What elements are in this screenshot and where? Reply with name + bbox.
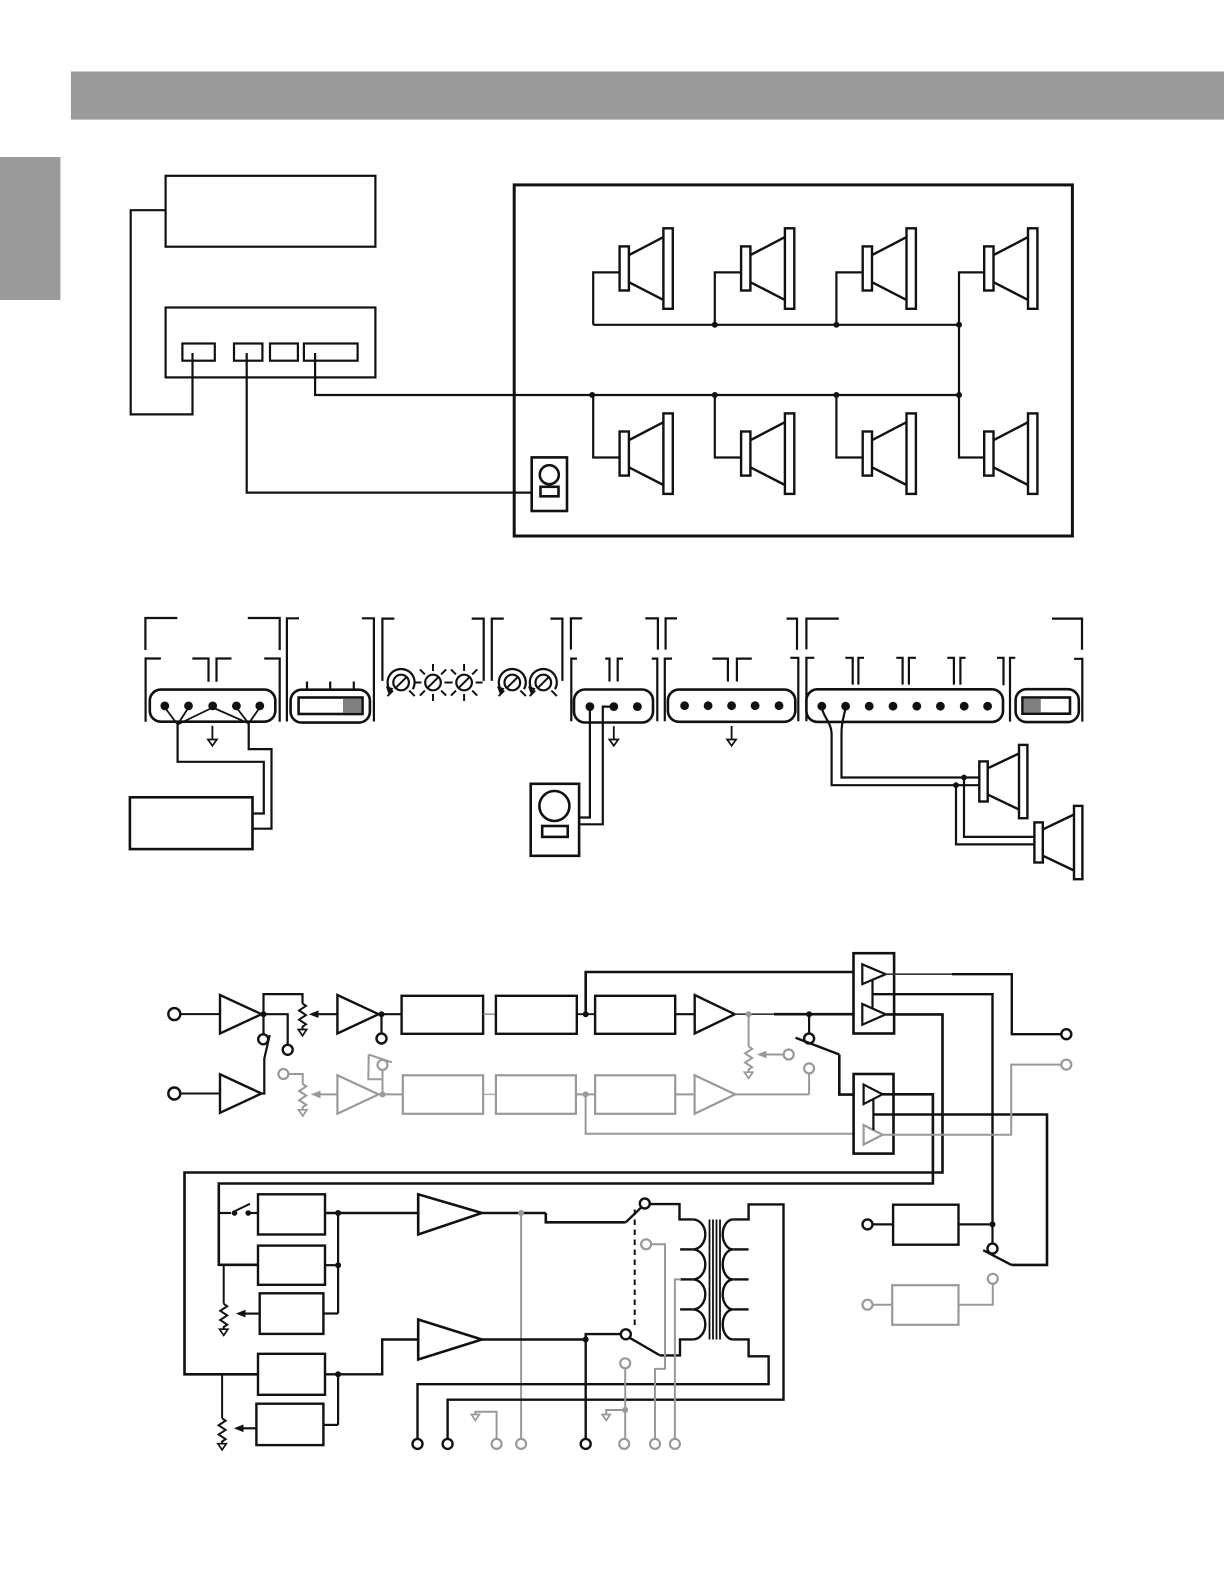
wire T4 to speaker bus — [315, 353, 959, 395]
switch contact bottom — [621, 1329, 631, 1339]
amplifier box — [166, 308, 376, 378]
knob 3 — [446, 664, 483, 701]
source box — [166, 176, 376, 247]
wire SP7 — [836, 395, 862, 458]
wire U2a out to lower-left section — [219, 1094, 933, 1265]
wire to contact B — [264, 1014, 288, 1044]
wire to contact A — [262, 1014, 264, 1034]
wire U1 mid tap down — [873, 994, 993, 1224]
gray amp A5 — [337, 1075, 378, 1114]
wire to contact C — [380, 1014, 382, 1033]
gray contact J — [988, 1274, 998, 1284]
wiper arrow R1 — [318, 1013, 337, 1015]
wire PA-L out — [482, 1212, 546, 1215]
gray wire — [383, 1093, 403, 1095]
wire — [675, 1013, 695, 1015]
wire U1b out to lower-left section — [185, 1014, 943, 1374]
terminal T3 — [270, 344, 298, 361]
gray block B1g — [403, 1075, 483, 1114]
lever bottom to primary bottom — [630, 1338, 660, 1356]
op-amp pair box U1 — [854, 953, 895, 1033]
vertical bus — [337, 1213, 339, 1314]
speaker enclosure box — [514, 185, 1072, 536]
wire B7 out to power amp R — [325, 1340, 418, 1375]
speaker SP7 — [863, 413, 916, 494]
speaker SP2 — [741, 228, 794, 308]
wire T2 to volume control — [247, 353, 532, 493]
wiper arrow R5 — [243, 1427, 256, 1429]
wire B8 out — [323, 1424, 338, 1426]
speaker terminal 2 — [443, 1439, 453, 1449]
jog to speaker switch — [546, 1213, 626, 1222]
gray rec-out switch flag — [368, 1055, 382, 1080]
wire U2 mid tap loop — [873, 1115, 1047, 1265]
remote speaker 2 — [1034, 806, 1082, 879]
terminal T4 — [304, 344, 358, 361]
speaker SP6 — [741, 413, 794, 494]
gray wire G to pot R3 — [288, 1074, 302, 1084]
gray wiper arrow R2 — [766, 1054, 783, 1056]
muting switch dots — [219, 1212, 231, 1214]
aux input block RB1 — [863, 1219, 873, 1229]
node gray: pot tap — [746, 1011, 752, 1017]
wire with node — [577, 1013, 595, 1015]
gray ground flag — [475, 1412, 496, 1439]
gray wire U2b out to pre-out R — [883, 1065, 1062, 1135]
junction dots top bus — [712, 322, 718, 328]
wire SP3 — [836, 272, 862, 324]
volume control device (top) — [532, 457, 567, 511]
ground arrow under strip B — [613, 726, 615, 739]
terminal strip B (3 posts) — [574, 690, 653, 723]
wire PA-R out — [482, 1338, 586, 1341]
gray node + line to headphone terminal — [518, 1210, 524, 1216]
wire B4 out to power amp L — [325, 1212, 418, 1214]
wire SP2 — [715, 272, 741, 324]
contact C — [377, 1034, 387, 1044]
node: A2 output — [379, 1011, 385, 1017]
gray amp A6 — [695, 1075, 736, 1114]
speaker SP8 — [984, 413, 1037, 494]
bracket group8 inner — [1010, 658, 1015, 722]
buffer amp A4 — [220, 1074, 262, 1113]
gray wiper arrow R3 — [320, 1093, 337, 1095]
buffer amp A1 — [220, 995, 262, 1034]
wire U1a out to pre-out L — [886, 973, 952, 975]
op-amp pair box U2 — [854, 1074, 894, 1154]
top speaker bus — [593, 325, 959, 395]
wire secondary bottom to speaker terminal 1 — [418, 1339, 769, 1439]
potentiometer R5 — [221, 1374, 223, 1418]
wiper arrow R4 — [245, 1312, 260, 1314]
block B8 — [256, 1404, 323, 1445]
contact B — [283, 1045, 293, 1055]
slide switch 1 — [291, 682, 370, 723]
block B1 — [402, 996, 484, 1034]
node — [990, 1221, 996, 1227]
selector lever from A4 — [262, 1035, 270, 1093]
block B5 — [258, 1246, 325, 1285]
gray wire F to A6 out — [808, 1073, 810, 1094]
transformer core — [709, 1220, 711, 1340]
wire A3 out to U1 — [735, 1013, 774, 1015]
transformer T1 primary — [693, 1219, 705, 1339]
gray wire H down — [382, 1070, 384, 1092]
pre-out jack L — [1061, 1029, 1071, 1039]
amp A3 — [695, 995, 735, 1034]
contact E — [804, 1034, 814, 1044]
gray block B3g — [595, 1075, 675, 1114]
gray center tap wire — [675, 1279, 681, 1439]
gray potentiometer R2 — [748, 1014, 750, 1046]
amp A2 — [337, 995, 378, 1034]
lever — [983, 1250, 1011, 1265]
bracket group4 — [492, 619, 504, 681]
knob 4 (with rotation arc) — [497, 669, 526, 696]
wire to transformer primary top — [650, 1204, 693, 1219]
knob 5 (with rotation arc) — [528, 669, 557, 696]
bracket group1 inner — [146, 659, 161, 722]
wires strip A to speaker box — [165, 708, 260, 725]
bracket group7-8 outer — [806, 619, 838, 650]
speaker switch lever top — [626, 1207, 642, 1222]
gray contact G — [278, 1069, 288, 1079]
power amp PA-L — [418, 1194, 482, 1234]
volume control device (middle) — [531, 784, 579, 856]
gray ground terminal — [492, 1439, 502, 1449]
block B3 — [595, 996, 675, 1034]
gray contact F — [804, 1063, 814, 1073]
gray wire — [675, 1093, 694, 1095]
speaker B box — [130, 797, 253, 849]
block B7 — [258, 1354, 325, 1395]
bracket group6 inner — [665, 659, 672, 722]
wire — [483, 1013, 496, 1015]
knob 1 (with rotation arc) — [386, 669, 415, 696]
dashed gang link — [634, 1210, 636, 1329]
terminal T1 — [182, 344, 214, 361]
junction dots lower bus — [589, 392, 595, 398]
terminal strip D (8 posts) — [806, 689, 1003, 722]
wire — [180, 1013, 220, 1015]
gray terminal center tap — [670, 1439, 680, 1449]
wire B5 out — [325, 1264, 338, 1266]
gray switch contact — [620, 1358, 630, 1368]
speaker SP1 — [620, 228, 673, 308]
wire SP1 — [593, 272, 619, 324]
wire loop to pot R1 — [264, 994, 303, 1014]
bracket group3 — [382, 619, 394, 681]
speaker SP3 — [863, 228, 916, 308]
bracket group2 — [287, 618, 299, 721]
black terminal — [581, 1439, 591, 1449]
wires strip D to remote speakers — [822, 708, 1035, 844]
terminal strip A (5 posts) — [150, 690, 275, 722]
bracket group1 outer — [145, 618, 177, 650]
gray aux block RB2 — [863, 1300, 873, 1310]
bracket group7 inner — [806, 658, 814, 722]
switch lever to power amp feed — [796, 1038, 840, 1055]
gray wire — [483, 1093, 496, 1095]
potentiometer R4 — [223, 1265, 225, 1304]
wire SP6 — [715, 395, 741, 458]
potentiometer R1 — [299, 1004, 306, 1030]
remote speaker 1 — [979, 745, 1027, 818]
knob 2 — [415, 664, 452, 701]
gray wire to terminal with ground branch — [624, 1368, 626, 1439]
speaker terminal 1 — [413, 1439, 423, 1449]
ground arrow under strip C — [731, 726, 733, 740]
gray contact I and wire — [641, 1239, 651, 1249]
transformer T1 secondary — [723, 1219, 734, 1339]
input jack R — [168, 1088, 180, 1100]
gray node A5 out — [380, 1091, 386, 1097]
direct feed line to op-amp U1 — [586, 972, 863, 1014]
wire B6 out — [323, 1312, 338, 1314]
wire to switch contact — [991, 1224, 993, 1243]
switch contact — [988, 1244, 998, 1254]
wire — [180, 1093, 220, 1095]
wire secondary top to speaker terminal 2 — [448, 1204, 784, 1439]
ground arrow under strip A — [211, 726, 213, 740]
slide switch 2 — [1016, 689, 1079, 722]
contact A — [258, 1034, 268, 1044]
vertical bus low — [337, 1374, 339, 1425]
gray block B2g — [496, 1075, 576, 1114]
wire to contact E — [808, 1014, 810, 1033]
block B2 — [496, 996, 577, 1034]
gray terminal — [650, 1439, 660, 1449]
gray direct feed to U2 lower — [586, 1094, 864, 1133]
gray contact D — [784, 1050, 794, 1060]
pre-out jack R gray — [1061, 1060, 1071, 1070]
left tab — [0, 157, 60, 300]
switch contact top — [640, 1199, 650, 1209]
bracket group6 outer — [666, 618, 677, 649]
wire SP5 — [593, 395, 619, 458]
gray contact H — [378, 1060, 388, 1070]
block B6 — [260, 1293, 324, 1334]
gray wire with node — [576, 1093, 595, 1095]
bracket group5 outer — [571, 618, 582, 649]
bracket group5 inner — [571, 659, 577, 722]
gray potentiometer R3 — [299, 1084, 306, 1110]
block B4 — [258, 1194, 325, 1234]
terminal T2 — [234, 344, 262, 361]
wire source to T1 — [131, 210, 193, 414]
gray terminal — [619, 1439, 629, 1449]
node: A3 out — [806, 1011, 812, 1017]
speaker SP5 — [620, 413, 673, 494]
wires strip B to volume control — [579, 707, 614, 825]
wire — [382, 1013, 402, 1015]
wire SP4 — [959, 272, 984, 324]
power amp PA-R — [418, 1320, 482, 1360]
input jack L — [168, 1008, 180, 1020]
terminal strip C (5 posts) — [668, 690, 795, 722]
node: A1 output — [261, 1011, 267, 1017]
wire node to terminal — [585, 1340, 587, 1439]
gray wire A6 out — [735, 1093, 809, 1095]
gray headphone terminal — [516, 1439, 526, 1449]
wire SP8 — [959, 395, 984, 458]
header bar — [71, 72, 1224, 120]
speaker SP4 — [984, 228, 1037, 308]
